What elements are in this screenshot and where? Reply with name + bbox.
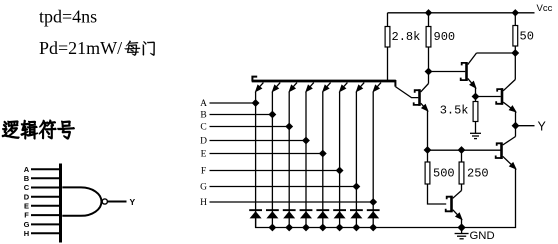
wire emitter 6 vertical	[339, 92, 341, 228]
wire VCC rail	[388, 12, 535, 14]
diode D7	[350, 209, 363, 211]
wire Q3 collector to 50 node	[477, 52, 516, 54]
node input H junction	[370, 199, 376, 205]
gate input C	[31, 187, 59, 189]
svg-text:H: H	[200, 198, 207, 208]
node input B junction	[269, 112, 275, 118]
gate input G	[31, 223, 59, 225]
svg-text:D: D	[24, 192, 30, 201]
input G wire	[210, 186, 357, 188]
transistor Q3	[461, 53, 477, 88]
wire Q4 emitter to Y node	[515, 112, 517, 126]
resistor R1 2.8k	[387, 13, 389, 27]
transistor Q2	[414, 84, 429, 111]
gate input D	[31, 196, 59, 198]
svg-text:B: B	[200, 111, 206, 121]
wire emitter 1 vertical	[255, 92, 257, 228]
ground GND	[461, 228, 463, 234]
input A wire	[210, 102, 256, 104]
svg-text:250: 250	[467, 167, 489, 181]
node rail junction 3	[286, 225, 292, 231]
svg-text:F: F	[24, 211, 29, 220]
transistor Q5	[496, 137, 516, 169]
wire emitter 7 vertical	[355, 92, 357, 228]
diode D8	[367, 209, 380, 211]
Q1 emitter 4	[308, 83, 314, 90]
svg-text:GND: GND	[470, 230, 495, 242]
wire emitter 8 vertical	[372, 92, 374, 228]
input D wire	[210, 140, 307, 142]
input B wire	[210, 114, 273, 116]
svg-text:H: H	[24, 229, 29, 238]
Q1 emitter 1	[257, 83, 263, 90]
wire Q3 emitter down	[475, 88, 477, 97]
svg-text:F: F	[201, 167, 206, 177]
transistor Q1 multi-emitter base bar	[252, 80, 396, 83]
wire Q5 collector to Y	[515, 126, 517, 137]
svg-text:Vcc: Vcc	[537, 3, 553, 14]
node input D junction	[303, 138, 309, 144]
wire Q2 collector up	[428, 72, 430, 84]
svg-text:B: B	[24, 174, 30, 183]
node Q3 emitter/3.5k/Q4 base junction	[473, 94, 479, 100]
gate input bar	[59, 164, 62, 243]
svg-text:Pd=21mW/: Pd=21mW/	[39, 38, 122, 58]
Q1 emitter 8	[375, 83, 381, 90]
diode D6	[333, 209, 346, 211]
svg-text:A: A	[200, 99, 207, 109]
gate input E	[31, 205, 59, 207]
diode D2	[266, 209, 279, 211]
svg-text:2.8k: 2.8k	[392, 30, 421, 44]
node output Y junction	[513, 123, 519, 129]
svg-text:3.5k: 3.5k	[440, 104, 469, 118]
wire 900 node to Q3 base	[429, 71, 466, 73]
node 50/Q3/Q4 junction	[512, 50, 518, 56]
input F wire	[210, 170, 340, 172]
Q1 emitter 7	[358, 83, 364, 90]
node input F junction	[337, 168, 343, 174]
resistor R3 50	[514, 13, 516, 26]
transistor Q4	[496, 80, 515, 112]
svg-text:500: 500	[433, 167, 455, 181]
node input A junction	[253, 100, 259, 106]
diode D1	[249, 209, 262, 211]
wire emitter 4 vertical	[305, 92, 307, 228]
Q1 emitter 3	[291, 83, 297, 90]
svg-text:C: C	[24, 183, 30, 192]
node 900/Q2 collector junction	[426, 69, 432, 75]
node GND junction	[458, 224, 464, 230]
svg-text:E: E	[201, 150, 207, 160]
wire output Y	[516, 125, 535, 127]
node rail junction 6	[337, 225, 343, 231]
ground below 3.5k	[470, 132, 481, 134]
wire emitter 3 vertical	[288, 92, 290, 228]
wire Q6 emitter to rail	[461, 219, 463, 228]
diode D4	[300, 209, 313, 211]
gate input A	[31, 168, 59, 170]
wire Q2 emitter down	[427, 111, 429, 151]
svg-text:A: A	[24, 165, 30, 174]
NAND gate body U1	[62, 187, 101, 215]
node rail junction 8	[370, 225, 376, 231]
wire ground rail	[256, 169, 516, 228]
node input E junction	[320, 151, 326, 157]
resistor R6 250	[461, 150, 463, 162]
node rail junction 4	[303, 225, 309, 231]
node input C junction	[286, 124, 292, 130]
resistor R2 900	[428, 13, 430, 27]
gate output bubble	[102, 199, 107, 204]
gate output wire	[108, 201, 127, 203]
input E wire	[210, 153, 323, 155]
wire Q1 collector to Q2 base	[395, 87, 418, 98]
input C wire	[210, 126, 290, 128]
wire emitter 5 vertical	[322, 92, 324, 228]
node 500 junction	[425, 147, 431, 153]
diode D3	[283, 209, 296, 211]
svg-text:tpd=4ns: tpd=4ns	[39, 7, 97, 27]
svg-text:E: E	[24, 201, 29, 210]
svg-text:C: C	[200, 123, 206, 133]
svg-text:50: 50	[520, 30, 534, 44]
wire emitter 2 vertical	[271, 92, 273, 228]
wire Q4 collector up	[514, 53, 516, 80]
svg-text:Y: Y	[130, 197, 136, 207]
svg-text:G: G	[24, 220, 30, 229]
wire Q2 emitter node row	[428, 149, 501, 151]
svg-text:D: D	[200, 137, 207, 147]
Q1 emitter 6	[341, 83, 347, 90]
diode D5	[316, 209, 329, 211]
node VCC-50 junction	[513, 10, 519, 16]
node rail junction 2	[269, 225, 275, 231]
svg-text:Y: Y	[538, 120, 547, 134]
svg-text:900: 900	[434, 30, 456, 44]
node rail junction 5	[320, 225, 326, 231]
heading logic-symbol (CJK)	[2, 121, 19, 139]
gate input B	[31, 177, 59, 179]
gate input H	[31, 232, 59, 234]
Q1 emitter 5	[324, 83, 330, 90]
transistor Q6	[446, 191, 462, 220]
Q1 emitter 2	[274, 83, 280, 90]
wire node to Q4 base	[476, 96, 501, 98]
input H wire	[210, 201, 374, 203]
node 250 junction	[459, 147, 465, 153]
node input G junction	[353, 184, 359, 190]
node VCC-900 junction	[426, 10, 432, 16]
node rail junction 7	[353, 225, 359, 231]
gate input F	[31, 214, 59, 216]
svg-text:G: G	[200, 183, 207, 193]
resistor R5 500	[427, 150, 429, 162]
resistor R4 3.5k	[475, 97, 477, 102]
